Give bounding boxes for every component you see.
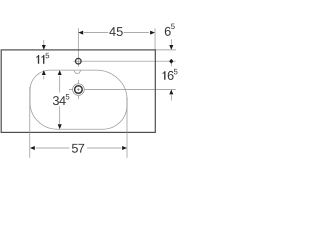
dimension 34.5 line upper segment [59,76,61,93]
dimension 45 line right segment [124,32,150,34]
dimension 57 label [72,144,78,153]
drain center mark bottom tick [77,96,79,99]
extension line right edge column [154,28,156,50]
dimension 45 left arrow [78,31,83,35]
dimension 16.5 arrow stub [170,95,172,101]
extension line 57 left [29,87,31,158]
drain center cross [77,89,79,91]
dimension 6.5 label [165,27,171,36]
dimension 34.5 up arrow [58,70,62,75]
dimension 11.5 upper stub [43,40,45,45]
dimension 11.5 up arrow [42,70,46,75]
bowl outline [30,70,127,129]
diamond lower stub [170,64,172,67]
dimension 57 left arrow [30,146,35,150]
dimension 57 line right segment [87,147,121,149]
tap hole centerline horizontal [73,60,175,62]
tap hole [76,58,82,64]
dimension 57 right arrow [122,146,127,150]
extension line top edge right [155,49,176,51]
extension line 57 right [126,97,128,158]
drain center mark left tick [69,89,72,91]
dimension 6.5 down arrow [169,45,173,50]
drain outer circle [73,84,85,96]
dimension 16.5 label [162,71,165,80]
dimension 34.5 down arrow [58,124,62,129]
dimension 45 right arrow [150,31,155,35]
drain center mark top tick [77,80,79,83]
dimension 45 label [109,27,115,36]
dimension 45 line left segment [84,32,108,34]
dimension 11.5 lower stub [43,76,45,80]
dimension 34.5 label [53,96,59,105]
dimension 34.5 line lower segment [59,106,61,124]
dimension 11.5 down arrow [42,45,46,50]
dimension 57 line left segment [36,147,70,149]
dimension 11.5 label [36,55,39,64]
dimension 6.5 diamond dot [169,59,173,64]
washbasin outline [1,50,155,132]
extension line tap column [77,28,79,67]
dimension 16.5 up arrow [169,90,173,95]
drain inner circle [75,86,83,94]
overflow notch [74,70,81,73]
dimension 6.5 arrow stub [170,39,172,45]
drain centerline horizontal [85,89,176,91]
